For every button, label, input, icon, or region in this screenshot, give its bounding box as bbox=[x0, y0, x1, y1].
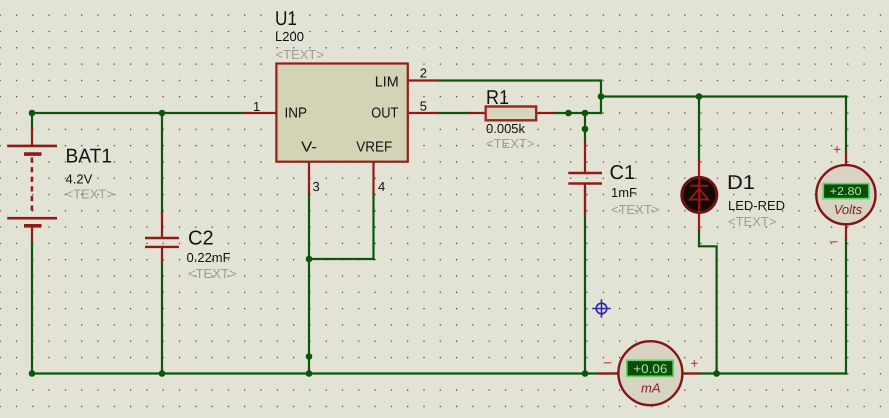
voltmeter LCD bbox=[823, 184, 869, 199]
LED D1 bbox=[682, 177, 717, 213]
svg-text:LIM: LIM bbox=[375, 74, 399, 90]
wire R1 right to corner bbox=[554, 112, 601, 114]
svg-text:<TEXT>: <TEXT> bbox=[486, 136, 534, 151]
op-amp U1 L200 regulator body bbox=[276, 64, 407, 162]
junction D1 top bbox=[696, 93, 703, 100]
capacitor C2 bbox=[145, 238, 179, 247]
junction out net bbox=[598, 93, 605, 100]
wire voltmeter top bbox=[845, 97, 847, 153]
voltmeter body bbox=[816, 165, 875, 224]
wire V- pin3 down bbox=[308, 193, 310, 259]
wire battery top stub bbox=[31, 113, 33, 129]
node origin marker bbox=[592, 299, 610, 317]
voltmeter bottom pin bbox=[845, 224, 847, 238]
svg-text:C2: C2 bbox=[188, 227, 214, 249]
C1 top lead bbox=[584, 143, 586, 172]
svg-text:<TEXT>: <TEXT> bbox=[276, 47, 324, 62]
battery BAT1 bbox=[7, 146, 57, 226]
D1 top lead bbox=[698, 160, 700, 176]
svg-text:2: 2 bbox=[420, 66, 427, 81]
svg-text:+: + bbox=[833, 141, 841, 157]
C2 bottom lead bbox=[161, 248, 163, 262]
capacitor C1 bbox=[568, 173, 602, 184]
wire bottom rail bbox=[32, 372, 846, 374]
junction C1 stub bbox=[582, 126, 589, 133]
junction pin3 corner bbox=[306, 256, 313, 263]
junction C2 top bbox=[159, 110, 166, 117]
wire pin3 branch to ground bbox=[308, 259, 310, 374]
svg-text:−: − bbox=[829, 234, 839, 250]
pin stub U1 pin4 bbox=[372, 162, 374, 193]
wire top rail from battery to U1 pin1 bbox=[32, 112, 245, 114]
svg-text:<TEXT>: <TEXT> bbox=[66, 187, 114, 202]
svg-text:D1: D1 bbox=[727, 172, 755, 194]
wire out net horizontal bbox=[601, 95, 846, 97]
wire C1 bottom bbox=[584, 188, 586, 374]
C1 bottom lead bbox=[584, 184, 586, 214]
ammeter left pin bbox=[599, 372, 619, 374]
ammeter right pin bbox=[682, 372, 699, 374]
svg-text:OUT: OUT bbox=[371, 106, 398, 122]
wire U1 pin2 LIM to right bbox=[438, 81, 601, 114]
resistor R1 body bbox=[486, 107, 537, 121]
ammeter body bbox=[618, 341, 682, 405]
wire U1 pin5 OUT to R1 bbox=[438, 112, 471, 114]
junction ground C1 bbox=[582, 370, 589, 377]
svg-text:0.22mF: 0.22mF bbox=[187, 250, 231, 265]
junction R1 out b bbox=[582, 110, 589, 117]
svg-text:V-: V- bbox=[301, 140, 317, 156]
svg-text:+2.80: +2.80 bbox=[830, 186, 862, 198]
pin stub U1 pin2 bbox=[408, 79, 438, 81]
wire pin3-pin4 horizontal bbox=[309, 258, 374, 260]
junction ground C2 bbox=[159, 370, 166, 377]
svg-text:R1: R1 bbox=[486, 87, 509, 109]
svg-text:VREF: VREF bbox=[356, 140, 392, 156]
D1 bottom lead bbox=[698, 213, 700, 230]
wire voltmeter bottom bbox=[845, 238, 847, 374]
svg-text:Volts: Volts bbox=[834, 202, 863, 217]
svg-text:U1: U1 bbox=[275, 8, 297, 30]
svg-text:0.005k: 0.005k bbox=[486, 121, 526, 136]
R1 left lead bbox=[471, 112, 486, 114]
svg-text:INP: INP bbox=[285, 106, 308, 122]
svg-text:<TEXT>: <TEXT> bbox=[188, 266, 236, 281]
svg-text:1: 1 bbox=[253, 99, 260, 114]
wire battery bottom to ground rail bbox=[31, 241, 33, 374]
svg-text:+: + bbox=[690, 355, 698, 371]
junction above ground bbox=[306, 353, 313, 360]
svg-text:1mF: 1mF bbox=[611, 185, 637, 200]
svg-text:4: 4 bbox=[378, 179, 385, 194]
svg-text:mA: mA bbox=[641, 381, 661, 396]
C2 top lead bbox=[161, 213, 163, 237]
svg-text:4.2V: 4.2V bbox=[66, 172, 93, 187]
voltmeter top pin bbox=[845, 152, 847, 166]
svg-text:LED-RED: LED-RED bbox=[728, 198, 785, 213]
junction R1 out a bbox=[565, 110, 572, 117]
ammeter LCD bbox=[627, 360, 673, 376]
svg-text:BAT1: BAT1 bbox=[66, 146, 113, 168]
svg-text:<TEXT>: <TEXT> bbox=[611, 202, 659, 217]
svg-text:+0.06: +0.06 bbox=[633, 362, 667, 376]
R1 right lead bbox=[536, 112, 554, 114]
wire C1 top bbox=[584, 113, 586, 143]
svg-text:<TEXT>: <TEXT> bbox=[728, 214, 776, 229]
wire C2 branch bottom bbox=[161, 262, 163, 374]
junction ground pin3 bbox=[306, 370, 313, 377]
svg-text:L200: L200 bbox=[275, 29, 304, 44]
svg-text:3: 3 bbox=[313, 179, 320, 194]
pin stub U1 pin5 bbox=[408, 112, 438, 114]
pin stub U1 pin1 bbox=[245, 112, 277, 114]
svg-text:−: − bbox=[603, 355, 613, 371]
wire VREF pin4 down bbox=[372, 193, 374, 259]
svg-text:C1: C1 bbox=[610, 162, 636, 184]
wire D1 bottom jog bbox=[699, 230, 717, 374]
wire D1 top bbox=[698, 97, 700, 161]
junction battery top bbox=[29, 110, 36, 117]
junction ground D1 bbox=[713, 370, 720, 377]
pin stub U1 pin3 bbox=[308, 162, 310, 193]
battery bottom lead bbox=[31, 228, 33, 242]
svg-text:5: 5 bbox=[420, 99, 427, 114]
junction ground battery bbox=[29, 370, 36, 377]
wire C2 branch top bbox=[161, 113, 163, 213]
battery top lead bbox=[31, 129, 33, 146]
